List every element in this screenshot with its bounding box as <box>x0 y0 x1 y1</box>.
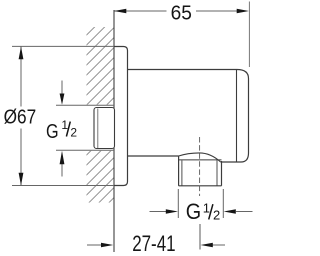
outlet centerline extension below label <box>199 224 201 250</box>
outlet centerline dashed <box>199 137 201 196</box>
dimension O67 up arrow <box>19 47 24 60</box>
svg-text:Ø67: Ø67 <box>4 106 37 129</box>
svg-text:2: 2 <box>70 126 77 140</box>
svg-text:2: 2 <box>213 208 220 223</box>
body end cap inner line <box>236 70 238 162</box>
label G1/2 bottom <box>186 199 221 224</box>
dimension 65 lines <box>115 10 238 12</box>
label G1/2 left <box>46 118 77 143</box>
body outlet boss curve <box>179 153 221 162</box>
union pipe chamfer line <box>97 109 99 149</box>
svg-text:G: G <box>46 121 59 143</box>
dimension 65 left arrow <box>114 9 126 14</box>
dimension O67 vertical line and extension lines <box>12 46 114 185</box>
dimension G1/2 left lines <box>56 81 114 177</box>
body bottom edge <box>128 155 179 157</box>
dimension G1/2 left up arrow <box>60 151 65 165</box>
dimension G1/2 bottom left arrow <box>166 209 178 214</box>
svg-text:G: G <box>186 199 201 224</box>
dimension 27-41 lines <box>87 244 225 246</box>
dimension G1/2 bottom right arrow <box>224 209 236 214</box>
dimension 65 right extension line <box>248 2 250 68</box>
outlet fitting hex <box>179 156 222 186</box>
dimension O67 down arrow <box>19 173 24 186</box>
dimension 65 right arrow <box>237 9 249 14</box>
escutcheon flange outline <box>114 47 128 186</box>
svg-text:1: 1 <box>61 118 68 132</box>
dimension 27-41 right arrow <box>201 243 213 248</box>
dimension G1/2 left down arrow <box>60 94 65 105</box>
union pipe through wall <box>94 108 115 149</box>
body outline top right <box>128 70 249 163</box>
svg-text:65: 65 <box>171 1 192 24</box>
svg-text:27-41: 27-41 <box>132 231 175 256</box>
wall face line <box>113 10 115 252</box>
dimension 27-41 left arrow <box>101 243 113 248</box>
dimension G1/2 bottom extension lines <box>150 189 253 218</box>
svg-text:1: 1 <box>203 200 210 215</box>
